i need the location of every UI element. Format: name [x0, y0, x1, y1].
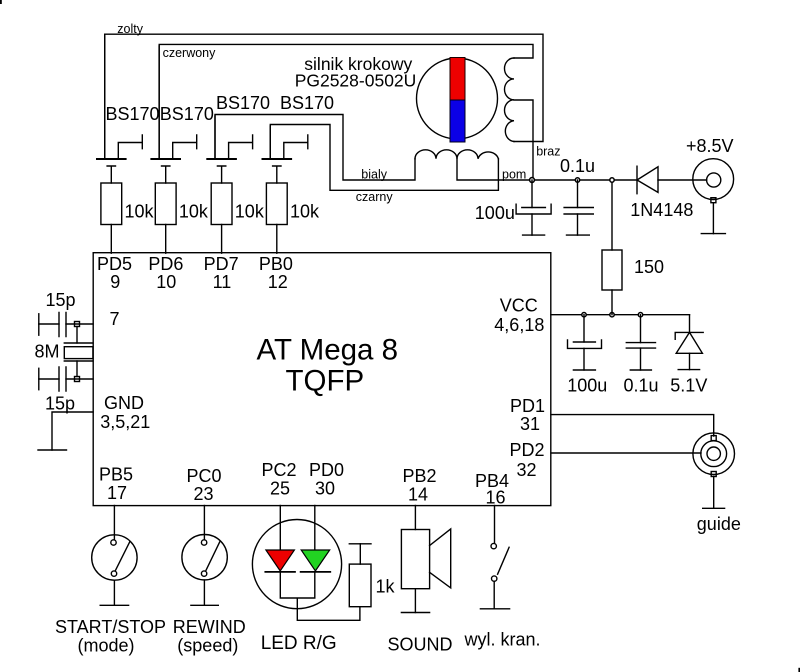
ground GND pin — [38, 449, 67, 451]
switch S2 lever — [206, 542, 220, 570]
ground C3 — [523, 234, 545, 236]
wire PB2 to speaker — [414, 506, 416, 530]
wire J2 to ground — [713, 477, 715, 509]
svg-text:czarny: czarny — [356, 190, 394, 204]
resistor R3 10k — [211, 183, 232, 225]
svg-text:4,6,18: 4,6,18 — [494, 315, 544, 335]
svg-text:1N4148: 1N4148 — [630, 200, 693, 220]
svg-text:PB2: PB2 — [403, 466, 437, 486]
svg-text:7: 7 — [110, 309, 120, 329]
svg-text:+8.5V: +8.5V — [686, 136, 734, 156]
svg-text:25: 25 — [270, 479, 290, 499]
ground C4 — [567, 234, 590, 236]
ground J2 — [703, 507, 725, 509]
wire LED cathodes common — [280, 572, 360, 620]
motor magnet south (blue) — [450, 100, 465, 142]
speaker SP1 horn — [430, 529, 451, 588]
switch S2 REWIND body — [182, 535, 227, 580]
wire braz (brown) center tap of right coil — [514, 100, 533, 180]
svg-text:100u: 100u — [475, 203, 515, 223]
diode D1 1N4148 — [637, 166, 707, 194]
svg-text:BS170: BS170 — [160, 104, 214, 124]
node VCC junction 1 — [582, 313, 586, 317]
transistor Q3 BS170 — [207, 116, 252, 183]
svg-text:10k: 10k — [235, 202, 265, 222]
wire VCC rail — [551, 314, 690, 316]
resistor R1 10k — [101, 183, 122, 225]
svg-text:10k: 10k — [179, 202, 209, 222]
svg-text:bialy: bialy — [361, 168, 387, 182]
capacitor C1 15p — [39, 313, 93, 337]
wire PD1 to guide — [551, 415, 714, 436]
svg-text:100u: 100u — [567, 376, 607, 396]
svg-text:10: 10 — [156, 272, 176, 292]
svg-text:LED R/G: LED R/G — [261, 633, 337, 654]
svg-text:17: 17 — [107, 483, 127, 503]
svg-text:BS170: BS170 — [106, 104, 160, 124]
capacitor C5 100u (VCC) — [568, 315, 602, 370]
svg-text:PD7: PD7 — [204, 254, 239, 274]
ground S3 — [480, 608, 509, 610]
IC U1 AT Mega 8 TQFP body — [93, 253, 551, 506]
wire czarny (black) net — [270, 125, 498, 191]
ground C6 — [630, 369, 651, 371]
capacitor C4 0.1u (input) — [564, 180, 593, 235]
resistor R4 10k — [266, 183, 287, 225]
svg-text:10k: 10k — [125, 202, 155, 222]
motor coil L2 (bottom, horizontal) — [415, 150, 498, 159]
wire PC2 to LED red anode — [279, 506, 281, 551]
svg-text:31: 31 — [520, 414, 540, 434]
svg-text:5.1V: 5.1V — [670, 376, 707, 396]
svg-text:BS170: BS170 — [216, 93, 270, 113]
LED D4 cathode bar — [301, 571, 331, 573]
connector J2 middle — [701, 441, 727, 467]
ground SP1 — [401, 612, 429, 614]
node supply junction C3 — [575, 178, 579, 182]
svg-text:PD5: PD5 — [97, 254, 132, 274]
svg-text:czerwony: czerwony — [163, 46, 217, 60]
svg-text:15p: 15p — [45, 394, 75, 414]
motor magnet north (red) — [450, 58, 465, 101]
svg-text:TQFP: TQFP — [286, 364, 365, 397]
wire R4 to pin PB0 — [276, 225, 278, 254]
zener diode D2 5.1V — [675, 315, 703, 370]
node VCC junction 2 — [610, 313, 614, 317]
switch S2 top terminal — [201, 540, 206, 545]
wire pom (orange) center-tap net to supply node — [457, 159, 637, 180]
switch S2 bottom terminal — [201, 571, 206, 576]
wire R3 to pin PD7 — [221, 225, 223, 254]
svg-text:PD6: PD6 — [148, 254, 183, 274]
svg-text:150: 150 — [634, 257, 664, 277]
svg-text:guide: guide — [697, 514, 741, 534]
wire GND pin — [52, 412, 93, 450]
wire czerwony (red) net — [159, 44, 533, 158]
svg-text:PD2: PD2 — [510, 440, 545, 460]
wire R2 to pin PD6 — [165, 225, 167, 254]
wire PD0 to LED green anode — [314, 506, 316, 551]
svg-text:SOUND: SOUND — [388, 634, 453, 654]
connector J1 inner — [707, 173, 721, 187]
connector J2 guide outer — [693, 433, 735, 475]
svg-text:pom: pom — [502, 168, 526, 182]
node XTAL1 junction square — [75, 322, 80, 327]
svg-text:10k: 10k — [290, 202, 320, 222]
wire S3 to ground — [493, 581, 495, 609]
corner mark top-left — [0, 0, 2, 4]
switch S1 top terminal — [111, 540, 116, 545]
wire R1 to pin PD5 — [110, 225, 112, 254]
svg-text:AT Mega 8: AT Mega 8 — [257, 334, 399, 367]
svg-text:START/STOP: START/STOP — [55, 617, 166, 637]
switch S3 top terminal — [491, 543, 496, 548]
ground J1 — [701, 233, 725, 235]
wire PB4 to switch S3 — [494, 506, 496, 544]
capacitor C3 100u (input) — [516, 180, 551, 235]
connector J2 top pad — [711, 436, 716, 441]
node supply junction pom — [530, 178, 535, 183]
ground C5 — [573, 369, 595, 371]
resistor R5 150 — [602, 180, 622, 315]
svg-text:(mode): (mode) — [78, 636, 135, 656]
svg-text:8M: 8M — [35, 342, 60, 362]
svg-text:zolty: zolty — [117, 22, 143, 36]
wire PB5 to switch S1 — [113, 506, 115, 543]
capacitor C2 15p — [39, 367, 93, 391]
svg-text:PD1: PD1 — [510, 396, 545, 416]
crystal X1 8M — [64, 327, 93, 377]
svg-text:0.1u: 0.1u — [560, 156, 595, 176]
connector J2 inner — [707, 447, 720, 460]
connector J2 bottom pad — [711, 472, 716, 477]
LED D3 red triangle — [266, 550, 295, 571]
wire S2 to ground — [203, 580, 205, 605]
ground D2 — [678, 369, 699, 371]
switch S1 lever — [116, 542, 130, 570]
svg-text:3,5,21: 3,5,21 — [100, 412, 150, 432]
switch S1 bottom terminal — [111, 571, 116, 576]
wire PD2 to guide — [551, 452, 701, 454]
ground S1 — [100, 604, 128, 606]
ground S2 — [191, 604, 218, 606]
resistor R6 1k — [349, 544, 371, 607]
connector J1 +8.5V outer — [693, 159, 734, 200]
svg-text:(speed): (speed) — [177, 636, 238, 656]
wire zolty (yellow) net — [105, 34, 543, 158]
LED package circle — [252, 520, 341, 609]
svg-text:PD0: PD0 — [309, 460, 344, 480]
transistor Q4 BS170 — [263, 126, 308, 183]
svg-text:REWIND: REWIND — [173, 617, 246, 637]
svg-text:9: 9 — [110, 272, 120, 292]
node supply junction D1 — [610, 178, 614, 182]
node XTAL2 junction square — [75, 377, 80, 382]
svg-text:wyl. kran.: wyl. kran. — [464, 630, 541, 650]
svg-text:14: 14 — [408, 485, 428, 505]
svg-text:GND: GND — [104, 393, 144, 413]
svg-text:1k: 1k — [376, 576, 396, 596]
svg-text:VCC: VCC — [500, 296, 538, 316]
connector J1 bottom pad — [711, 198, 716, 203]
motor coil L1 (right, vertical) — [504, 58, 514, 142]
svg-text:0.1u: 0.1u — [624, 376, 659, 396]
svg-text:15p: 15p — [46, 290, 76, 310]
svg-text:PC2: PC2 — [262, 460, 297, 480]
svg-text:braz: braz — [536, 145, 560, 159]
svg-text:12: 12 — [268, 272, 288, 292]
LED D4 green triangle — [301, 550, 330, 571]
corner mark bottom-right — [798, 668, 800, 672]
resistor R2 10k — [155, 183, 176, 225]
svg-text:16: 16 — [486, 488, 506, 508]
switch S3 bottom terminal — [492, 576, 497, 581]
svg-text:23: 23 — [194, 484, 214, 504]
switch S3 lever — [498, 547, 510, 574]
svg-text:PG2528-0502U: PG2528-0502U — [295, 70, 417, 90]
switch S1 START/STOP body — [92, 535, 137, 580]
wire speaker to ground — [414, 589, 416, 613]
wire PC0 to switch S2 — [203, 506, 205, 543]
svg-text:30: 30 — [315, 479, 335, 499]
svg-text:BS170: BS170 — [280, 93, 334, 113]
svg-text:PB5: PB5 — [99, 464, 133, 484]
stepper motor M1 rotor circle — [417, 58, 498, 139]
svg-text:PB0: PB0 — [259, 254, 293, 274]
speaker SP1 body — [401, 530, 429, 589]
node VCC junction 3 — [638, 313, 642, 317]
svg-text:PC0: PC0 — [187, 466, 222, 486]
LED D3 cathode bar — [265, 571, 295, 573]
svg-text:32: 32 — [517, 460, 537, 480]
transistor Q1 BS170 — [97, 36, 142, 183]
transistor Q2 BS170 — [151, 46, 196, 183]
wire S1 to ground — [113, 580, 115, 605]
capacitor C6 0.1u (VCC) — [626, 315, 655, 370]
wire J1 to ground — [712, 203, 714, 234]
svg-text:11: 11 — [213, 272, 232, 292]
wire bialy (white) net — [215, 115, 415, 181]
